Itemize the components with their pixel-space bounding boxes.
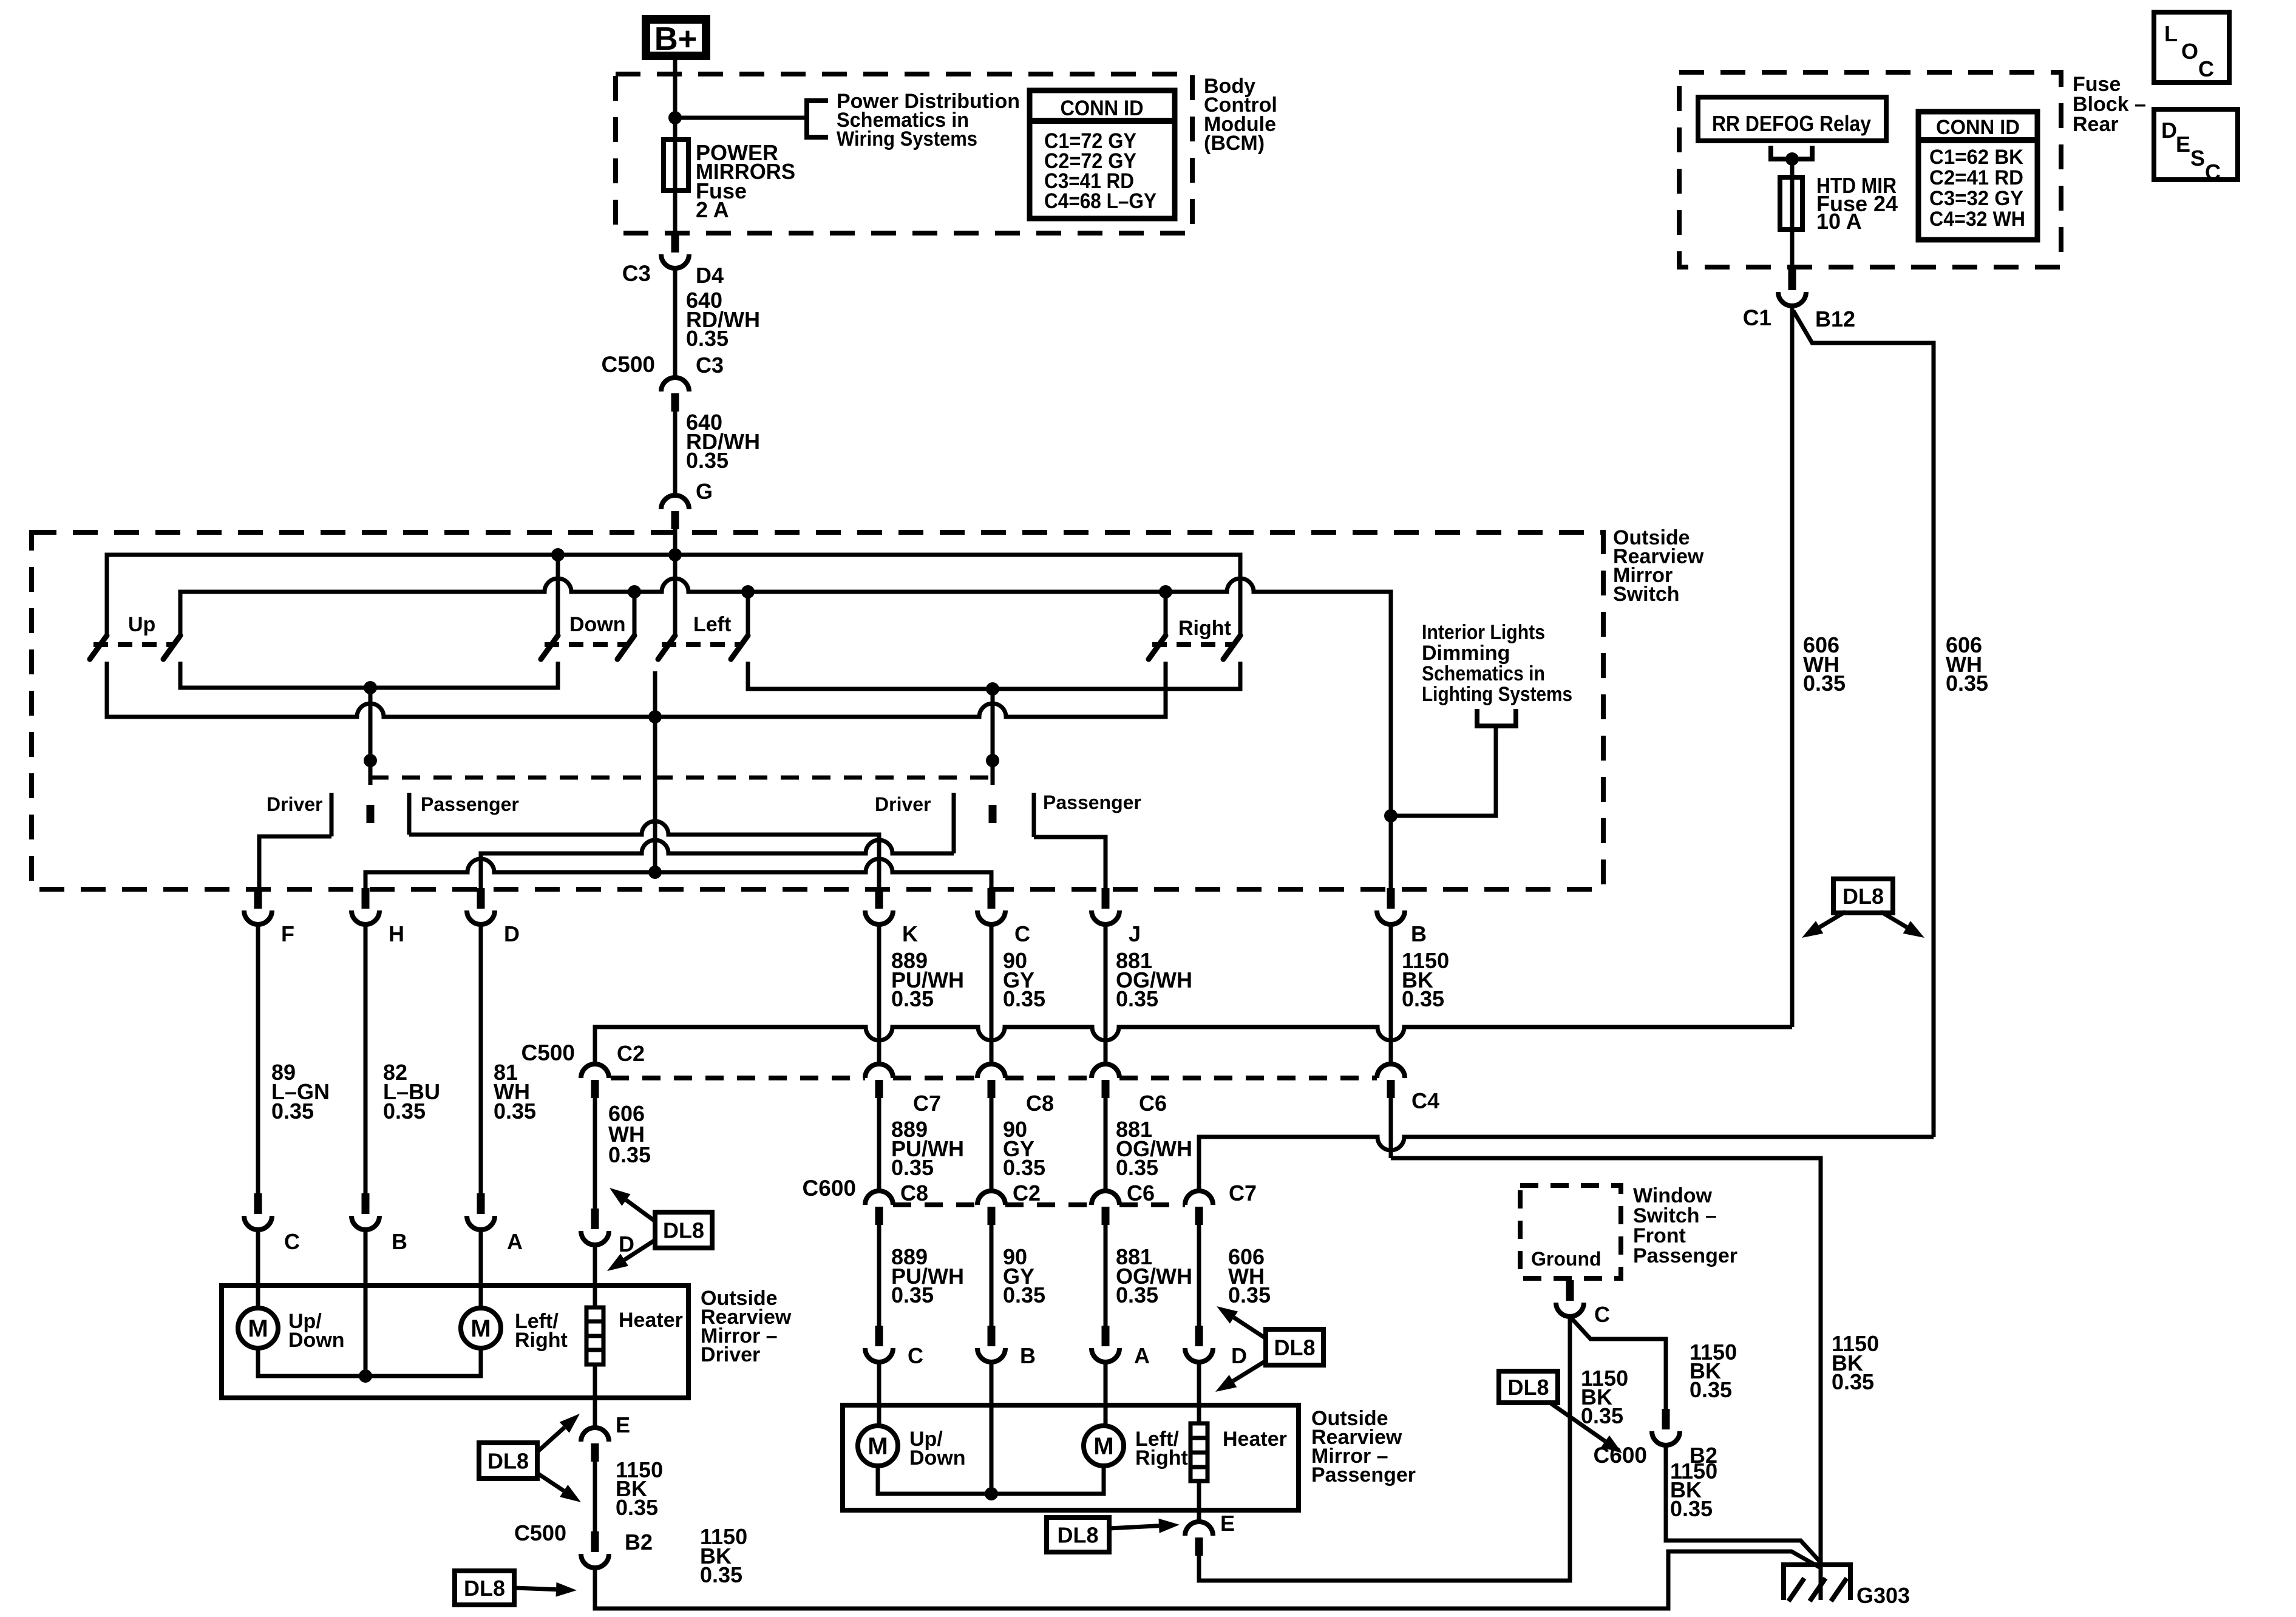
connector C600 B2 window <box>1662 1409 1670 1429</box>
svg-text:Switch: Switch <box>1613 583 1680 606</box>
wire D to heater <box>1197 1362 1201 1423</box>
svg-text:0.35: 0.35 <box>1832 1369 1874 1394</box>
heater element driver <box>586 1307 603 1364</box>
wire C into driver mirror <box>256 1230 260 1308</box>
connector pin F of switch <box>254 888 262 909</box>
svg-text:Heater: Heater <box>619 1309 683 1332</box>
ground G303 symbol <box>1784 1565 1850 1600</box>
connector C600 C6 <box>1092 1191 1119 1205</box>
svg-text:C6: C6 <box>1139 1091 1167 1116</box>
svg-text:DL8: DL8 <box>1057 1523 1098 1548</box>
svg-text:C2=41 RD: C2=41 RD <box>1929 166 2023 189</box>
node relay output <box>1785 152 1799 166</box>
svg-text:S: S <box>2190 146 2205 171</box>
wire 889 mid <box>877 1097 881 1191</box>
splice DL8 callout driver D <box>655 1212 712 1248</box>
selector pivot 2 <box>986 754 999 767</box>
fuse block rear dashed box <box>1679 72 2061 267</box>
svg-text:Lighting Systems: Lighting Systems <box>1422 683 1572 706</box>
node bus1-G <box>668 548 682 561</box>
connector driver mirror C <box>254 1193 262 1214</box>
svg-text:H: H <box>389 921 404 946</box>
selector2 passenger stub <box>1032 793 1036 837</box>
switch blade right-R <box>1223 636 1240 659</box>
svg-text:B+: B+ <box>654 21 698 57</box>
node driver common <box>359 1369 372 1383</box>
wire 89 F <box>256 924 260 1195</box>
svg-text:Heater: Heater <box>1223 1428 1287 1451</box>
svg-text:B: B <box>392 1229 407 1254</box>
svg-text:0.35: 0.35 <box>1003 1155 1045 1180</box>
connector C500 C2 <box>581 1064 609 1078</box>
svg-text:C4=68 L–GY: C4=68 L–GY <box>1044 189 1156 213</box>
svg-text:G: G <box>696 479 713 504</box>
wire selector2 driver to D <box>481 840 954 889</box>
node common H/C <box>648 866 662 879</box>
bus return line with hops <box>180 578 1391 889</box>
wire up-out to down-out <box>180 662 558 688</box>
wire 90 C upper <box>990 924 994 1064</box>
switch blade right-L <box>1149 636 1166 659</box>
svg-text:C6: C6 <box>1127 1181 1155 1205</box>
svg-text:C: C <box>2205 160 2221 185</box>
heater element passenger <box>1190 1423 1207 1481</box>
connector C500 C4 <box>1377 1064 1405 1078</box>
connector C500 C6 <box>1092 1064 1119 1078</box>
connector pin C of switch <box>988 888 996 909</box>
svg-text:0.35: 0.35 <box>891 1283 934 1307</box>
connector C500 C8 <box>977 1064 1005 1078</box>
svg-text:J: J <box>1129 921 1141 946</box>
splice DL8 callout (606 wires) <box>1833 879 1893 913</box>
node common-left tap <box>648 710 662 724</box>
svg-text:C600: C600 <box>1594 1443 1647 1468</box>
connector pin G <box>661 495 689 509</box>
svg-text:Right: Right <box>1178 617 1231 640</box>
switch blade left-L <box>658 636 675 659</box>
svg-text:0.35: 0.35 <box>1003 1283 1045 1307</box>
wire 1150 driver <box>593 1461 597 1532</box>
svg-text:C: C <box>1014 921 1030 946</box>
svg-text:(BCM): (BCM) <box>1204 132 1265 155</box>
svg-text:Driver: Driver <box>701 1343 760 1366</box>
svg-text:0.35: 0.35 <box>1116 986 1158 1011</box>
node B wire tap <box>1384 809 1398 822</box>
connector driver mirror D <box>591 1209 599 1229</box>
connector passenger mirror A <box>1102 1326 1110 1346</box>
svg-text:C3=32 GY: C3=32 GY <box>1929 187 2023 210</box>
svg-text:C600: C600 <box>803 1176 856 1201</box>
svg-text:0.35: 0.35 <box>616 1495 658 1520</box>
svg-text:0.35: 0.35 <box>383 1099 426 1124</box>
svg-text:Up: Up <box>128 613 155 636</box>
driver mirror box <box>222 1286 688 1398</box>
connector pin B of switch <box>1387 888 1395 909</box>
contact stub left-right <box>746 592 750 636</box>
svg-text:Passenger: Passenger <box>1633 1244 1737 1267</box>
svg-text:Passenger: Passenger <box>421 793 519 815</box>
switch blade down-L <box>541 636 558 659</box>
node selector1 tap <box>364 681 377 694</box>
svg-text:Driver: Driver <box>267 793 323 815</box>
switch blade up-L <box>90 636 107 659</box>
svg-text:C: C <box>2198 56 2214 81</box>
interior lights bracket <box>1477 709 1516 726</box>
svg-text:C500: C500 <box>602 352 655 377</box>
svg-text:M: M <box>248 1315 268 1342</box>
switch blade left-R <box>731 636 748 659</box>
svg-text:DL8: DL8 <box>663 1218 704 1243</box>
wire 881 lower <box>1104 1224 1108 1326</box>
LOC legend box <box>2154 12 2229 83</box>
wire passenger heater out <box>1197 1481 1201 1522</box>
node selector2 tap <box>986 682 999 696</box>
svg-text:M: M <box>470 1315 491 1342</box>
svg-text:L: L <box>2164 21 2178 46</box>
wire 606 driver between <box>593 1097 597 1209</box>
wire 1150 B to ground run <box>1391 1158 1821 1600</box>
connector C500 C7 <box>865 1064 893 1078</box>
selector1 blade <box>367 805 375 823</box>
wire 889 K upper <box>877 924 881 1064</box>
off-page bracket (power distribution) <box>807 101 828 137</box>
outside rearview mirror switch dashed box <box>32 532 1603 889</box>
connector pin J of switch <box>1102 888 1110 909</box>
wire to power distribution ref <box>675 116 807 120</box>
svg-text:C4: C4 <box>1411 1088 1439 1113</box>
svg-text:0.35: 0.35 <box>1003 986 1045 1011</box>
svg-text:Schematics in: Schematics in <box>1422 662 1545 685</box>
DESC legend box <box>2154 109 2238 180</box>
svg-text:0.35: 0.35 <box>686 448 729 473</box>
svg-text:CONN ID: CONN ID <box>1936 116 2020 139</box>
svg-text:C3: C3 <box>622 261 651 286</box>
svg-text:0.35: 0.35 <box>891 986 934 1011</box>
connector passenger mirror D <box>1195 1326 1203 1346</box>
svg-text:B12: B12 <box>1815 307 1855 331</box>
contact stub left-left <box>673 555 678 636</box>
svg-text:G303: G303 <box>1856 1583 1910 1608</box>
wire 606 to passenger heater (horiz) <box>1199 1137 1934 1191</box>
svg-text:0.35: 0.35 <box>1402 986 1444 1011</box>
svg-text:F: F <box>281 921 294 946</box>
svg-text:D4: D4 <box>696 263 724 288</box>
contact stub right-left <box>1164 592 1168 636</box>
svg-text:0.35: 0.35 <box>1228 1283 1271 1307</box>
wire 90 lower <box>990 1224 994 1326</box>
power node B+ box <box>646 19 706 56</box>
svg-text:0.35: 0.35 <box>686 326 729 351</box>
svg-text:C500: C500 <box>521 1040 575 1065</box>
svg-text:B2: B2 <box>625 1530 653 1554</box>
wire selector2 drop <box>991 689 995 761</box>
svg-text:0.35: 0.35 <box>1116 1283 1158 1307</box>
svg-text:E: E <box>2176 132 2190 157</box>
selector divider dashed <box>370 776 993 780</box>
connector C3/D4 at BCM <box>671 232 679 253</box>
svg-text:C: C <box>284 1229 300 1254</box>
wire common rail with hops <box>107 662 1166 717</box>
motor M left/right driver <box>461 1308 501 1348</box>
connector passenger mirror B <box>988 1326 996 1346</box>
connector C600 C7 <box>1185 1191 1213 1205</box>
svg-text:10 A: 10 A <box>1816 209 1862 234</box>
BCM CONN ID table <box>1030 90 1175 219</box>
wire window to ground <box>1666 1445 1821 1562</box>
connector pin D of switch <box>477 888 485 909</box>
connector C500 C3 <box>661 378 689 392</box>
svg-text:C: C <box>1594 1302 1610 1327</box>
fuse HTD MIR 24 <box>1780 177 1802 229</box>
svg-text:CONN ID: CONN ID <box>1061 97 1144 120</box>
svg-text:C2: C2 <box>617 1041 645 1066</box>
svg-text:0.35: 0.35 <box>891 1155 934 1180</box>
wire K to motor <box>877 1362 881 1426</box>
wire J to motor <box>1104 1362 1108 1426</box>
svg-text:Down: Down <box>288 1329 345 1352</box>
switch Up linkage <box>93 642 173 647</box>
svg-text:Right: Right <box>1135 1446 1188 1470</box>
wire 606 WH right branch split <box>1793 311 1934 1137</box>
connector C600 C2 <box>977 1191 1005 1205</box>
svg-text:Ground: Ground <box>1531 1248 1601 1270</box>
svg-text:B: B <box>1411 921 1427 946</box>
connector pin K of switch <box>875 888 883 909</box>
switch Left linkage <box>662 642 741 647</box>
svg-text:A: A <box>507 1229 523 1254</box>
switch blade up-R <box>163 636 180 659</box>
svg-text:D: D <box>1231 1343 1247 1368</box>
motor M left/right passenger <box>1084 1426 1124 1466</box>
svg-text:Wiring Systems: Wiring Systems <box>837 127 977 151</box>
wire B+ to fuse <box>673 60 678 239</box>
svg-text:D: D <box>504 921 520 946</box>
svg-text:C8: C8 <box>1026 1091 1054 1116</box>
svg-text:B: B <box>1020 1343 1036 1368</box>
svg-text:Down: Down <box>569 613 626 636</box>
svg-text:C7: C7 <box>1229 1181 1257 1205</box>
motor M up/down driver <box>238 1308 278 1348</box>
svg-text:DL8: DL8 <box>1507 1375 1549 1400</box>
wire 606 pass lower <box>1197 1224 1201 1326</box>
splice DL8 callout passenger D <box>1266 1329 1323 1365</box>
splice DL8 callout window <box>1499 1371 1558 1403</box>
bus feed (power) line <box>107 555 1240 636</box>
svg-text:Down: Down <box>909 1446 966 1470</box>
svg-text:0.35: 0.35 <box>494 1099 536 1124</box>
svg-text:K: K <box>902 921 918 946</box>
wire 1150 B upper <box>1389 924 1393 1064</box>
svg-text:Passenger: Passenger <box>1311 1463 1416 1486</box>
selector pivot 1 <box>364 754 377 767</box>
wire D into driver heater <box>593 1245 597 1307</box>
fuse block CONN ID table <box>1918 112 2037 240</box>
wire left-out to right-out <box>748 662 1240 689</box>
svg-text:C8: C8 <box>900 1181 928 1205</box>
svg-text:2 A: 2 A <box>696 197 729 222</box>
contact stub down-right <box>633 592 637 636</box>
switch Down linkage <box>545 642 627 647</box>
svg-text:0.35: 0.35 <box>1581 1403 1623 1428</box>
svg-text:Right: Right <box>515 1329 568 1352</box>
svg-text:RR DEFOG Relay: RR DEFOG Relay <box>1712 111 1871 136</box>
svg-text:DL8: DL8 <box>1843 884 1884 909</box>
RR DEFOG relay box <box>1698 97 1886 141</box>
svg-text:0.35: 0.35 <box>1116 1155 1158 1180</box>
node bus2 down-right <box>628 585 641 598</box>
svg-text:Passenger: Passenger <box>1043 792 1141 813</box>
relay pin bracket <box>1771 146 1812 159</box>
svg-text:0.35: 0.35 <box>608 1142 651 1167</box>
wire 81 D <box>479 924 483 1195</box>
svg-text:C4=32 WH: C4=32 WH <box>1929 208 2025 231</box>
svg-text:Interior Lights: Interior Lights <box>1422 621 1545 644</box>
svg-text:Rear: Rear <box>2073 113 2119 136</box>
wire common drop <box>653 671 657 872</box>
svg-text:DL8: DL8 <box>464 1576 505 1601</box>
connector row C500 dashed <box>611 1076 1377 1080</box>
wire 881 J upper <box>1104 924 1108 1064</box>
wire 82 H <box>364 924 368 1195</box>
svg-text:E: E <box>1220 1511 1235 1536</box>
passenger mirror box <box>843 1405 1299 1510</box>
fuse F1 POWER MIRRORS 2A <box>664 140 688 191</box>
svg-text:0.35: 0.35 <box>271 1099 314 1124</box>
wire 1150 B mid <box>1389 1097 1393 1158</box>
connector driver mirror A <box>477 1193 485 1214</box>
wire passenger ground run <box>1199 1317 1570 1581</box>
svg-text:DL8: DL8 <box>487 1449 529 1474</box>
wire 889 lower <box>877 1224 881 1326</box>
svg-text:A: A <box>1134 1343 1150 1368</box>
node passenger common <box>985 1487 998 1500</box>
connector C1 B12 <box>1788 269 1796 290</box>
connector C500 B2 driver <box>591 1531 599 1552</box>
svg-text:0.35: 0.35 <box>700 1562 742 1587</box>
splice DL8 callout passenger E <box>1047 1517 1109 1552</box>
wire selector1 passenger to K <box>409 821 879 889</box>
svg-text:C: C <box>908 1343 923 1368</box>
BCM dashed box <box>616 74 1192 233</box>
svg-text:Left: Left <box>693 613 731 636</box>
svg-text:E: E <box>616 1412 630 1437</box>
wire C to common <box>990 1362 994 1494</box>
switch Right linkage <box>1152 642 1232 647</box>
node bus1-down <box>551 548 565 561</box>
window switch dashed box <box>1520 1185 1621 1278</box>
node bus2 right-left <box>1159 585 1172 598</box>
svg-text:0.35: 0.35 <box>1803 671 1846 696</box>
svg-text:0.35: 0.35 <box>1690 1377 1732 1402</box>
wire driver ground run <box>595 1551 1819 1609</box>
wire interior lights tap <box>1391 726 1496 816</box>
connector pin H of switch <box>362 888 370 909</box>
wire 606 to driver heater (horiz) <box>595 1027 1792 1064</box>
wire 90 mid <box>990 1097 994 1191</box>
wire selector1 driver to F <box>259 836 331 889</box>
svg-text:C1=62 BK: C1=62 BK <box>1929 146 2023 169</box>
switch blade down-R <box>617 636 634 659</box>
svg-text:Dimming: Dimming <box>1422 642 1510 665</box>
wire common to H and C <box>365 859 991 889</box>
wire relay to fuse <box>1790 159 1795 271</box>
contact stub down-left <box>556 555 560 636</box>
svg-text:DL8: DL8 <box>1274 1335 1315 1360</box>
wire 606 WH left branch <box>1790 306 1795 1027</box>
wire B into driver mirror <box>364 1230 368 1376</box>
wire selector2 passenger to J <box>1034 837 1106 889</box>
connector row C600 dashed <box>893 1202 1185 1207</box>
svg-text:Driver: Driver <box>875 793 931 815</box>
node: fuse feed junction <box>668 111 682 124</box>
selector1 driver stub <box>330 793 334 836</box>
passenger mirror motor common bus <box>878 1466 1104 1494</box>
connector window switch C <box>1566 1280 1574 1301</box>
svg-text:M: M <box>868 1433 888 1460</box>
wire selector1 drop <box>369 688 373 761</box>
connector passenger mirror C <box>875 1326 883 1346</box>
svg-text:C1: C1 <box>1743 305 1771 330</box>
svg-text:0.35: 0.35 <box>1670 1496 1713 1521</box>
wire A into driver mirror <box>479 1230 483 1308</box>
wire G to switch <box>673 527 678 557</box>
driver mirror motor common bus <box>258 1348 481 1376</box>
selector2 blade <box>989 805 997 823</box>
wire 640 RD/WH <box>673 268 678 378</box>
node bus2 left-right <box>741 585 755 598</box>
connector C600 C8 <box>865 1191 893 1205</box>
svg-text:C500: C500 <box>514 1520 566 1545</box>
svg-text:D: D <box>2161 118 2177 143</box>
wire driver heater out <box>593 1364 597 1428</box>
svg-text:M: M <box>1093 1433 1113 1460</box>
svg-text:C7: C7 <box>913 1091 941 1116</box>
svg-text:C2: C2 <box>1013 1181 1041 1205</box>
svg-text:C3: C3 <box>696 353 724 378</box>
motor M up/down passenger <box>858 1426 898 1466</box>
connector E passenger <box>1185 1522 1213 1536</box>
splice DL8 callout driver B2 <box>455 1571 514 1605</box>
splice DL8 callout driver E <box>479 1443 537 1479</box>
selector1 passenger stub <box>407 793 412 835</box>
svg-text:O: O <box>2181 39 2198 64</box>
wire 881 mid <box>1104 1097 1108 1191</box>
selector2 driver stub <box>952 793 956 853</box>
svg-text:0.35: 0.35 <box>1946 671 1988 696</box>
connector E driver <box>581 1428 609 1442</box>
connector driver mirror B <box>362 1193 370 1214</box>
wire window switch ground branch <box>1570 1317 1666 1409</box>
wire 640 RD/WH lower <box>673 410 678 495</box>
